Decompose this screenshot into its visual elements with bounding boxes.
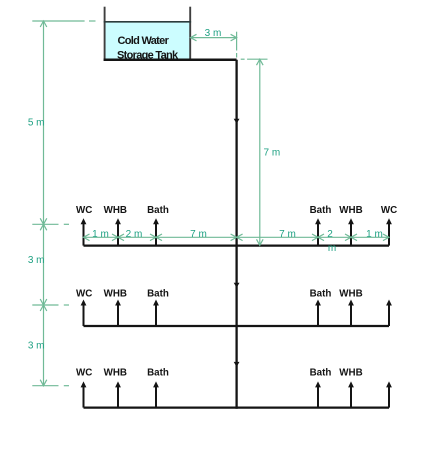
- riser to WC floor 3: [83, 385, 85, 407]
- floor level 1 extension line: [32, 223, 58, 225]
- top 3m extension line: [236, 32, 238, 51]
- svg-text:m: m: [328, 243, 336, 254]
- svg-text:WHB: WHB: [104, 368, 127, 379]
- 7m vertical dimension extension dashes: [241, 58, 245, 60]
- riser to Bath floor 2: [317, 304, 319, 327]
- floor 2 distribution pipe: [84, 325, 390, 327]
- svg-text:7 m: 7 m: [279, 229, 296, 240]
- svg-text:7 m: 7 m: [264, 148, 281, 159]
- svg-text:7 m: 7 m: [190, 229, 207, 240]
- svg-text:WHB: WHB: [339, 289, 362, 300]
- svg-text:3 m: 3 m: [205, 28, 222, 39]
- svg-text:Bath: Bath: [310, 289, 332, 300]
- svg-text:3 m: 3 m: [28, 340, 45, 351]
- floor 1 dimension arrowheads: [84, 234, 90, 241]
- floor 1 distribution pipe: [84, 244, 390, 246]
- riser to unlabeled fixture floor 2: [388, 304, 390, 327]
- svg-text:Bath: Bath: [310, 368, 332, 379]
- riser to WC floor 1: [83, 222, 85, 245]
- svg-text:Bath: Bath: [147, 205, 169, 216]
- svg-text:5 m: 5 m: [28, 117, 45, 128]
- floor level 3 extension line: [32, 385, 58, 387]
- riser to unlabeled fixture floor 3: [388, 385, 390, 407]
- tank left wall: [104, 7, 106, 61]
- svg-text:Bath: Bath: [310, 205, 332, 216]
- riser to WHB floor 3: [350, 385, 352, 407]
- svg-text:Bath: Bath: [147, 289, 169, 300]
- riser to Bath floor 2: [155, 304, 157, 327]
- riser to WC floor 1: [388, 222, 390, 245]
- flow arrow on drop pipe segment 2: [234, 283, 240, 288]
- svg-text:WC: WC: [381, 205, 397, 216]
- 7m vertical dimension line: [259, 59, 261, 245]
- tank bottom / outlet pipe: [104, 58, 237, 61]
- cold water storage tank fill: [105, 22, 190, 60]
- svg-text:2 m: 2 m: [126, 229, 143, 240]
- svg-text:Bath: Bath: [147, 368, 169, 379]
- svg-text:WC: WC: [76, 289, 92, 300]
- riser to WHB floor 2: [350, 304, 352, 327]
- riser to WHB floor 3: [117, 385, 119, 407]
- tank water surface line: [104, 21, 191, 23]
- riser to WC floor 2: [83, 304, 85, 327]
- floor 3 distribution pipe: [84, 406, 390, 408]
- svg-text:Storage Tank: Storage Tank: [117, 49, 179, 61]
- riser to Bath floor 3: [317, 385, 319, 407]
- left dim arrowheads: [40, 21, 47, 27]
- riser to Bath floor 1: [155, 222, 157, 245]
- svg-text:WC: WC: [76, 205, 92, 216]
- riser to WHB floor 1: [117, 222, 119, 245]
- top 3m dimension line: [191, 37, 237, 39]
- svg-text:WHB: WHB: [104, 205, 127, 216]
- flow arrow on drop pipe segment 1: [234, 119, 240, 124]
- left vertical dimension line: [43, 21, 45, 386]
- svg-text:WHB: WHB: [339, 205, 362, 216]
- riser to Bath floor 1: [317, 222, 319, 245]
- svg-text:Cold Water: Cold Water: [118, 35, 170, 47]
- svg-text:3 m: 3 m: [28, 255, 45, 266]
- svg-text:2: 2: [327, 229, 333, 240]
- floor 1 dimension line: [84, 236, 390, 238]
- floor level 2 extension line: [32, 304, 58, 306]
- tank right wall: [189, 7, 191, 61]
- svg-text:1 m: 1 m: [92, 229, 109, 240]
- riser to WHB floor 1: [350, 222, 352, 245]
- water level extension line: [32, 20, 84, 22]
- svg-text:1 m: 1 m: [366, 229, 383, 240]
- flow arrow on drop pipe segment 3: [234, 362, 240, 367]
- riser to Bath floor 3: [155, 385, 157, 407]
- svg-text:WC: WC: [76, 368, 92, 379]
- svg-text:WHB: WHB: [104, 289, 127, 300]
- main vertical drop pipe: [235, 60, 237, 409]
- riser to WHB floor 2: [117, 304, 119, 327]
- svg-text:WHB: WHB: [339, 368, 362, 379]
